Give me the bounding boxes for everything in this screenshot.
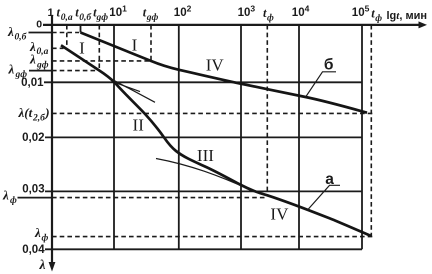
vertical gridline 10^3 [240, 25, 242, 249]
svg-text:2,б: 2,б [32, 113, 46, 124]
dashed level lambda_0b [52, 32, 79, 34]
svg-text:I: I [132, 35, 138, 54]
horizontal gridline 0,03 [45, 190, 362, 192]
svg-text:0,02: 0,02 [22, 132, 44, 144]
svg-text:ф: ф [375, 13, 382, 24]
vertical gridline 10^4 [298, 25, 300, 249]
svg-text:): ) [44, 105, 49, 120]
svg-text:λ: λ [29, 52, 36, 67]
dashed level lambda_dfa [52, 70, 99, 72]
horizontal gridline 0,02 [45, 136, 362, 138]
curve a [61, 45, 371, 236]
dashed vertical t_0a [66, 25, 68, 48]
svg-text:IV: IV [206, 56, 225, 75]
dashed level lambda_dfb [52, 60, 151, 62]
svg-text:III: III [197, 146, 214, 165]
svg-text:gф: gф [36, 59, 49, 70]
callout line a [308, 185, 341, 210]
svg-text:1: 1 [48, 7, 54, 19]
svg-text:I: I [79, 38, 85, 57]
solid tick lambda_dfa [29, 70, 52, 72]
curve b [81, 33, 368, 113]
thin tangent line at II [110, 78, 155, 102]
solid tick t_0b vertical [80, 25, 82, 33]
vertical gridline 10^1 [113, 25, 115, 249]
solid tick lambda_0b [29, 32, 53, 34]
svg-text:gф: gф [146, 12, 159, 23]
dashed vertical t_df2 [150, 25, 152, 61]
svg-text:а: а [325, 171, 334, 188]
dashed level lambda_0a [52, 47, 64, 49]
svg-text:ф: ф [267, 13, 274, 24]
svg-text:II: II [133, 115, 145, 134]
svg-text:λ: λ [2, 188, 9, 203]
svg-text:б: б [324, 57, 334, 74]
svg-text:λ: λ [7, 24, 14, 39]
svg-text:ф: ф [10, 195, 17, 206]
svg-text:0: 0 [36, 18, 42, 30]
svg-text:IV: IV [270, 204, 289, 223]
x axis (top) [43, 24, 420, 26]
svg-text:0,01: 0,01 [21, 77, 44, 89]
dashed level lambda_fa [52, 197, 266, 199]
svg-text:0,а: 0,а [37, 47, 49, 57]
vertical gridline 10^2 [178, 25, 180, 249]
horizontal gridline 0,01 [44, 81, 362, 83]
vertical gridline 10^5 [361, 25, 363, 249]
svg-text:λ: λ [34, 225, 41, 240]
svg-text:λ: λ [39, 257, 46, 272]
dashed vertical t_f1 [266, 25, 268, 196]
y axis [51, 16, 53, 263]
dashed vertical t_df1 [98, 25, 100, 71]
callout line b [306, 72, 337, 97]
svg-text:gф: gф [96, 12, 109, 23]
thin tangent line at III/IV [156, 159, 251, 191]
svg-text:0,03: 0,03 [22, 183, 44, 195]
solid tick lambda_f1 [18, 197, 53, 199]
svg-text:ф: ф [42, 233, 49, 244]
svg-text:λ: λ [8, 62, 15, 77]
dashed level lambda(t2b) [52, 112, 372, 114]
svg-text:0,04: 0,04 [22, 244, 45, 256]
dashed level lambda_fb [52, 236, 372, 238]
horizontal gridline 0,04 bottom frame [45, 248, 362, 250]
svg-text:0,а: 0,а [61, 13, 73, 23]
svg-text:λ(t: λ(t [18, 105, 33, 120]
svg-text:lgt, мин: lgt, мин [387, 10, 428, 22]
dashed vertical t_f2 [370, 25, 372, 237]
thin short tangent [115, 83, 140, 92]
svg-text:0,б: 0,б [79, 12, 92, 23]
svg-text:0,б: 0,б [15, 32, 28, 43]
